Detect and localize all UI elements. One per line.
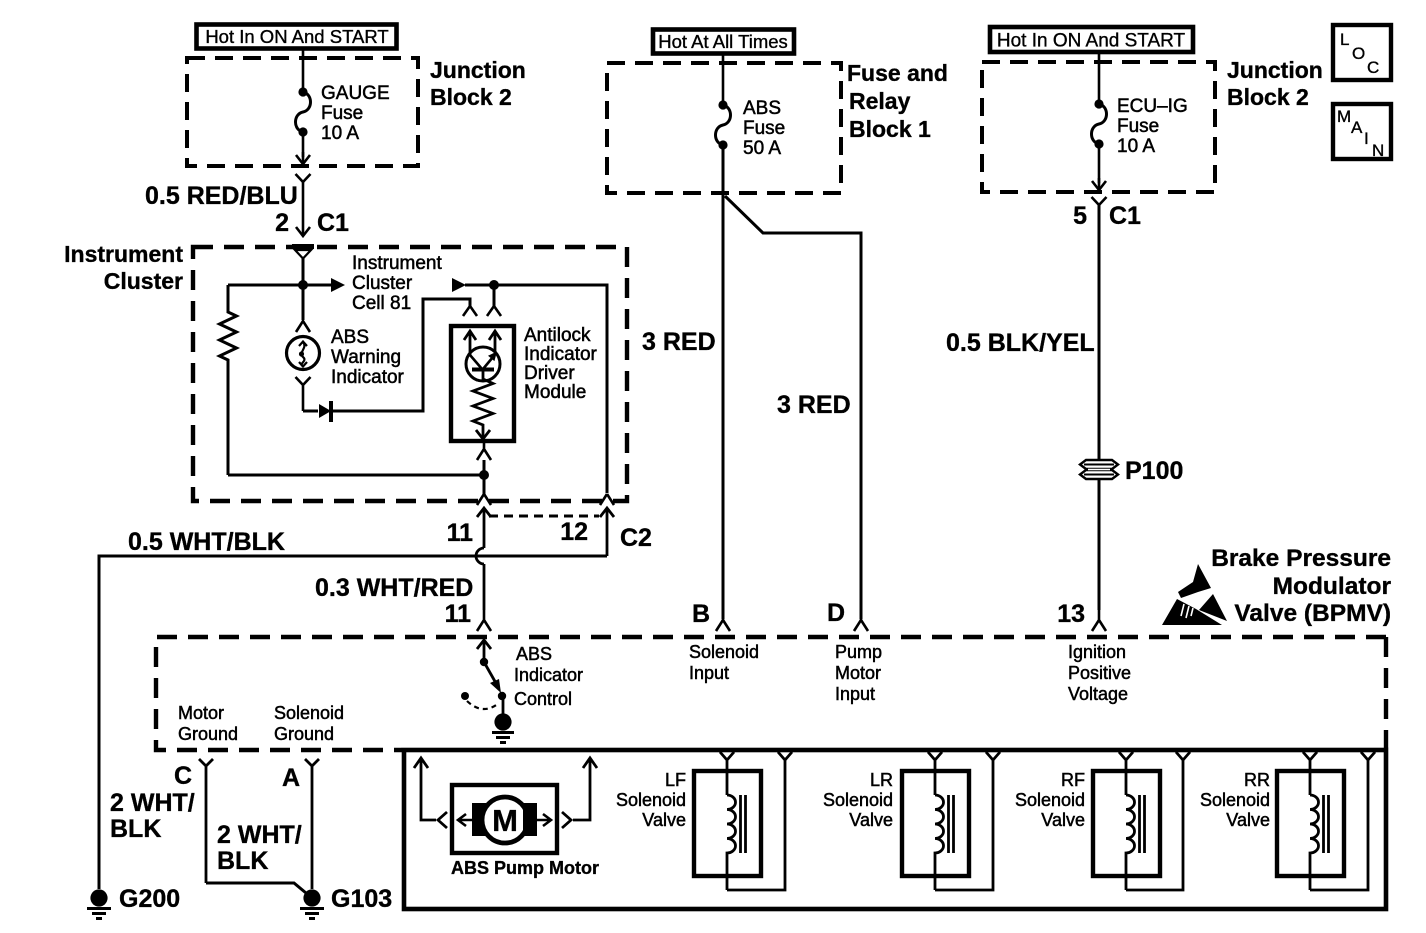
label ABS Indicator Control bbox=[514, 644, 583, 709]
wire down to P100 bbox=[1098, 205, 1101, 459]
pump motor left inline connector bbox=[438, 812, 447, 828]
BPMV pin name Ignition Positive Voltage bbox=[1068, 642, 1131, 704]
wire: hot box to fuse bbox=[302, 49, 305, 90]
arrow into cluster bbox=[296, 227, 310, 236]
pump motor left lead arrow bbox=[414, 758, 436, 820]
wire: hot box to fuse bbox=[722, 54, 725, 103]
svg-text:Driver: Driver bbox=[524, 363, 575, 384]
wire: node B right and down to pin 12 bbox=[494, 285, 607, 493]
location grid box LOC bbox=[1333, 25, 1391, 80]
svg-text:N: N bbox=[1372, 141, 1384, 160]
svg-text:11: 11 bbox=[447, 519, 474, 547]
power label box "Hot In ON And START" (right) bbox=[990, 27, 1193, 52]
svg-text:Valve: Valve bbox=[1226, 810, 1270, 830]
svg-text:Motor: Motor bbox=[178, 703, 224, 723]
svg-text:Ignition: Ignition bbox=[1068, 642, 1126, 662]
RR valve return wire bbox=[1310, 760, 1368, 890]
connector Y below lamp bbox=[296, 377, 311, 411]
wire segment down to instrument cluster bbox=[302, 182, 305, 235]
svg-text:5: 5 bbox=[1073, 202, 1087, 230]
svg-text:RR: RR bbox=[1244, 770, 1270, 790]
label Motor Ground bbox=[178, 703, 238, 744]
svg-text:Indicator: Indicator bbox=[514, 665, 583, 685]
svg-text:O: O bbox=[1352, 44, 1365, 63]
RR valve box bbox=[1277, 771, 1344, 876]
arrow from cell 81 bbox=[452, 278, 494, 292]
module lower pin legs bbox=[477, 443, 491, 460]
wire down to pin 13 bbox=[1098, 479, 1101, 610]
svg-text:ABS: ABS bbox=[331, 327, 369, 348]
svg-text:ECU–IG: ECU–IG bbox=[1117, 96, 1188, 117]
wire: entry down to node A bbox=[302, 257, 305, 285]
wire: node B down to module right pin bbox=[493, 285, 496, 306]
wire 0.3 WHT/RED hop over bbox=[476, 548, 484, 564]
svg-text:Solenoid: Solenoid bbox=[274, 703, 344, 723]
fuse value label bbox=[1117, 96, 1188, 157]
ABS indicator control switch arrow in bbox=[477, 640, 491, 662]
svg-text:Cell 81: Cell 81 bbox=[352, 293, 411, 314]
BPMV dashed right edge bbox=[1384, 637, 1388, 748]
svg-text:Hot In ON And START: Hot In ON And START bbox=[997, 31, 1186, 52]
connector chevron below block bbox=[296, 174, 311, 182]
svg-text:Warning: Warning bbox=[331, 347, 401, 368]
svg-text:Block 2: Block 2 bbox=[430, 84, 512, 110]
RF valve return connector Y bbox=[1176, 752, 1190, 760]
label Instrument Cluster bbox=[64, 241, 183, 294]
pin D connector legs bbox=[854, 610, 868, 631]
svg-text:Positive: Positive bbox=[1068, 663, 1131, 683]
motor right terminal arrow bbox=[537, 814, 551, 826]
svg-text:Valve: Valve bbox=[1041, 810, 1085, 830]
wire: hot box to fuse bbox=[1098, 53, 1101, 102]
svg-text:C: C bbox=[174, 762, 192, 790]
pin 11 arrow below cluster bbox=[477, 508, 491, 548]
pin 12 arrow below cluster bbox=[600, 508, 614, 556]
wire: module down to node C bbox=[483, 460, 486, 494]
svg-text:C1: C1 bbox=[317, 209, 349, 237]
svg-text:Input: Input bbox=[835, 684, 875, 704]
svg-text:11: 11 bbox=[445, 600, 472, 628]
svg-text:2 WHT/: 2 WHT/ bbox=[217, 821, 302, 849]
junction block 2 (left) dashed box bbox=[187, 58, 418, 166]
connector C2 dashed line bbox=[489, 515, 599, 518]
RF valve feed connector Y bbox=[1119, 752, 1133, 795]
svg-text:BLK: BLK bbox=[110, 815, 161, 843]
svg-text:Relay: Relay bbox=[849, 88, 911, 114]
module input arrows bbox=[464, 331, 501, 355]
svg-text:Junction: Junction bbox=[430, 57, 526, 83]
svg-text:Input: Input bbox=[689, 663, 729, 683]
LR valve box bbox=[902, 771, 969, 876]
SEC3 : right feed (ECU-IG) bbox=[946, 25, 1391, 631]
svg-text:ABS Pump Motor: ABS Pump Motor bbox=[451, 858, 599, 878]
wire: resistor bottom to node C bbox=[228, 474, 484, 477]
BPMV pin name Pump Motor Input bbox=[835, 642, 882, 704]
svg-text:LF: LF bbox=[665, 770, 686, 790]
fuse ABS 50A bbox=[716, 100, 731, 149]
label 2 WHT/BLK (motor ground wire) bbox=[110, 789, 195, 843]
grommet P100 bbox=[1080, 460, 1118, 479]
wire: diode right and up to module left pin bbox=[331, 299, 470, 411]
svg-text:M: M bbox=[492, 803, 518, 838]
wire: fuse down to block edge with arrow bbox=[1092, 148, 1106, 190]
svg-text:Valve: Valve bbox=[849, 810, 893, 830]
LF valve return wire bbox=[727, 760, 785, 890]
label Junction Block 2 (right) bbox=[1227, 57, 1323, 110]
svg-text:M: M bbox=[1337, 107, 1351, 126]
switch lower contact dot bbox=[498, 692, 506, 700]
wire: pin C to G103 bbox=[206, 883, 306, 893]
wire: node A left to resistor bbox=[228, 284, 303, 287]
diode CR1 bbox=[319, 401, 331, 422]
svg-text:2 WHT/: 2 WHT/ bbox=[110, 789, 195, 817]
svg-text:C: C bbox=[1367, 58, 1379, 77]
svg-text:Cluster: Cluster bbox=[104, 268, 183, 294]
svg-text:50 A: 50 A bbox=[743, 138, 781, 159]
connector legs above lamp bbox=[296, 321, 310, 332]
svg-text:10 A: 10 A bbox=[321, 123, 359, 144]
pump motor right lead arrow bbox=[573, 758, 597, 820]
SEC2 : middle feed (Fuse and Relay Block 1) bbox=[607, 30, 948, 632]
label Antilock Indicator Driver Module bbox=[524, 325, 598, 403]
module left pin legs bbox=[463, 306, 477, 316]
svg-text:Fuse: Fuse bbox=[743, 118, 785, 139]
SEC5 : C2 connector and wires to BPMV / grounds bbox=[87, 508, 1391, 919]
label Instrument Cluster Cell 81 bbox=[352, 253, 442, 314]
LR valve coil bbox=[935, 795, 944, 890]
RF valve return wire bbox=[1126, 760, 1183, 890]
wire: branch to pump motor feed bbox=[725, 196, 861, 619]
svg-text:A: A bbox=[282, 764, 300, 792]
ground G103 bbox=[300, 889, 324, 918]
wire: 0.3 WHT/RED down to BPMV pin 11 bbox=[483, 564, 486, 610]
svg-text:3 RED: 3 RED bbox=[777, 391, 851, 419]
LR valve feed connector Y bbox=[928, 752, 942, 795]
LR valve return wire bbox=[935, 760, 993, 890]
svg-text:0.5 RED/BLU: 0.5 RED/BLU bbox=[145, 182, 298, 210]
svg-text:ABS: ABS bbox=[516, 644, 552, 664]
svg-text:Indicator: Indicator bbox=[331, 367, 405, 388]
svg-text:G200: G200 bbox=[119, 885, 180, 913]
label Junction Block 2 (left) bbox=[430, 57, 526, 110]
cluster entry connector bar and triangle bbox=[292, 247, 314, 259]
RF valve core bbox=[1140, 795, 1145, 853]
svg-text:G103: G103 bbox=[331, 885, 392, 913]
svg-text:Fuse: Fuse bbox=[321, 103, 363, 124]
fuse GAUGE 10A bbox=[296, 87, 311, 136]
resistor (cluster shunt) bbox=[220, 285, 237, 475]
svg-text:A: A bbox=[1351, 118, 1363, 137]
svg-text:B: B bbox=[692, 600, 710, 628]
motor armature M bbox=[482, 797, 528, 843]
LF valve feed connector Y bbox=[720, 752, 734, 795]
BPMV dashed enclosure bbox=[156, 637, 1386, 750]
svg-text:Brake Pressure: Brake Pressure bbox=[1211, 545, 1391, 572]
LF valve core bbox=[741, 795, 746, 853]
LR solenoid valve label bbox=[823, 770, 893, 830]
svg-text:Solenoid: Solenoid bbox=[689, 642, 759, 662]
svg-text:Block 2: Block 2 bbox=[1227, 84, 1309, 110]
switch travel dashed arc bbox=[467, 701, 499, 709]
svg-text:D: D bbox=[827, 599, 845, 627]
svg-text:Junction: Junction bbox=[1227, 57, 1323, 83]
BPMV pin 11 legs bbox=[477, 610, 491, 631]
power label box "Hot At All Times" bbox=[653, 30, 794, 54]
svg-text:Module: Module bbox=[524, 382, 586, 403]
SEC6 : pump motor and solenoid valves assembly bbox=[404, 750, 1386, 909]
svg-text:Valve: Valve bbox=[642, 810, 686, 830]
svg-text:ABS: ABS bbox=[743, 98, 781, 119]
pin 13 connector legs bbox=[1092, 610, 1106, 631]
svg-text:Hot In ON And START: Hot In ON And START bbox=[205, 26, 388, 47]
wire: lamp to diode bbox=[303, 410, 318, 413]
svg-text:2: 2 bbox=[275, 209, 289, 237]
svg-text:L: L bbox=[1340, 30, 1349, 49]
svg-text:13: 13 bbox=[1057, 600, 1085, 628]
pin 11 exit legs at cluster border bbox=[477, 494, 491, 505]
svg-text:Modulator: Modulator bbox=[1273, 573, 1392, 600]
wire: fuse down to block edge with arrow bbox=[296, 136, 310, 164]
label Fuse and Relay Block 1 bbox=[847, 60, 948, 142]
svg-text:0.3 WHT/RED: 0.3 WHT/RED bbox=[315, 574, 473, 602]
RF solenoid valve label bbox=[1015, 770, 1085, 830]
svg-text:RF: RF bbox=[1061, 770, 1085, 790]
svg-text:Indicator: Indicator bbox=[524, 344, 598, 365]
ABS pump motor box bbox=[452, 785, 557, 853]
wire: fuse down through block to pin B bbox=[722, 145, 725, 619]
pin C connector Y bbox=[199, 759, 213, 883]
switch travel end dot bbox=[461, 692, 469, 700]
svg-text:Solenoid: Solenoid bbox=[1200, 790, 1270, 810]
svg-text:Valve (BPMV): Valve (BPMV) bbox=[1234, 600, 1391, 627]
svg-text:Solenoid: Solenoid bbox=[616, 790, 686, 810]
svg-text:Voltage: Voltage bbox=[1068, 684, 1128, 704]
motor left terminal arrow bbox=[458, 814, 472, 826]
pump motor right inline connector bbox=[562, 812, 571, 828]
svg-text:10 A: 10 A bbox=[1117, 136, 1155, 157]
switch blade with arrowhead bbox=[484, 662, 501, 693]
BPMV inner solid box bbox=[404, 750, 1386, 909]
svg-text:3 RED: 3 RED bbox=[642, 328, 716, 356]
switch pivot dot bbox=[480, 658, 488, 666]
svg-text:Motor: Motor bbox=[835, 663, 881, 683]
svg-text:GAUGE: GAUGE bbox=[321, 83, 390, 104]
wire: node A down to lamp bbox=[302, 285, 305, 320]
RF valve coil bbox=[1126, 795, 1135, 890]
RR valve return connector Y bbox=[1361, 752, 1375, 760]
node A junction dot bbox=[298, 280, 308, 290]
SEC4 : instrument cluster bbox=[64, 241, 627, 505]
pin A connector Y bbox=[305, 759, 319, 889]
BPMV pin name Solenoid Input bbox=[689, 642, 759, 683]
switch internal ground bbox=[492, 696, 514, 743]
RR valve coil bbox=[1310, 795, 1319, 890]
fuse value label bbox=[321, 83, 390, 144]
module right pin legs bbox=[487, 306, 501, 316]
node B junction dot bbox=[489, 280, 499, 290]
RR valve feed connector Y bbox=[1303, 752, 1317, 795]
svg-text:I: I bbox=[1364, 129, 1369, 148]
driver resistor bbox=[473, 371, 493, 437]
fuse value label bbox=[743, 98, 785, 159]
svg-text:Instrument: Instrument bbox=[64, 241, 183, 267]
svg-text:Ground: Ground bbox=[274, 724, 334, 744]
LF valve box bbox=[694, 771, 761, 876]
label ABS Warning Indicator bbox=[331, 327, 405, 388]
svg-text:Fuse: Fuse bbox=[1117, 116, 1159, 137]
LR valve core bbox=[949, 795, 954, 853]
svg-text:0.5 BLK/YEL: 0.5 BLK/YEL bbox=[946, 329, 1095, 357]
connector chevron below block bbox=[1092, 197, 1107, 205]
LF valve coil bbox=[727, 795, 736, 890]
svg-text:Cluster: Cluster bbox=[352, 273, 413, 294]
antilock indicator driver module box bbox=[451, 326, 514, 441]
location grid box MAIN bbox=[1333, 104, 1391, 160]
svg-text:Fuse and: Fuse and bbox=[847, 60, 948, 86]
svg-text:Pump: Pump bbox=[835, 642, 882, 662]
svg-text:Solenoid: Solenoid bbox=[1015, 790, 1085, 810]
label Solenoid Ground bbox=[274, 703, 344, 744]
svg-text:LR: LR bbox=[870, 770, 893, 790]
label 2 WHT/BLK (solenoid ground wire) bbox=[217, 821, 302, 875]
svg-text:Instrument: Instrument bbox=[352, 253, 442, 274]
RR solenoid valve label bbox=[1200, 770, 1270, 830]
motor left brush bbox=[472, 803, 486, 836]
driver transistor bbox=[466, 347, 500, 381]
svg-text:Antilock: Antilock bbox=[524, 325, 591, 346]
node C junction dot bbox=[479, 470, 489, 480]
svg-text:Hot At All Times: Hot At All Times bbox=[658, 31, 788, 52]
pin 12 exit legs at cluster border bbox=[600, 494, 614, 505]
fuse ECU-IG 10A bbox=[1092, 99, 1107, 148]
svg-text:Control: Control bbox=[514, 689, 572, 709]
instrument cluster dashed box bbox=[193, 247, 627, 501]
svg-text:BLK: BLK bbox=[217, 847, 268, 875]
svg-text:Block 1: Block 1 bbox=[849, 116, 931, 142]
pin B connector legs bbox=[716, 610, 730, 631]
SEC1 : top-left feed bbox=[145, 25, 526, 259]
LR valve return connector Y bbox=[986, 752, 1000, 760]
ground G200 bbox=[87, 889, 111, 918]
label Brake Pressure Modulator Valve (BPMV) bbox=[1211, 545, 1391, 627]
motor right brush bbox=[523, 803, 537, 836]
arrow to cell 81 bbox=[303, 278, 345, 292]
module output arrow bbox=[476, 430, 490, 439]
ABS warning indicator lamp bbox=[287, 337, 320, 370]
fuse and relay block 1 dashed box bbox=[607, 63, 841, 193]
junction block 2 (right) dashed box bbox=[982, 62, 1215, 192]
LF valve return connector Y bbox=[778, 752, 792, 760]
svg-text:12: 12 bbox=[560, 518, 588, 546]
svg-text:Ground: Ground bbox=[178, 724, 238, 744]
power label box "Hot In ON And START" (left) bbox=[197, 25, 397, 49]
svg-text:Solenoid: Solenoid bbox=[823, 790, 893, 810]
ESD sensitive symbol bbox=[1162, 564, 1227, 625]
RR valve core bbox=[1324, 795, 1329, 853]
svg-text:P100: P100 bbox=[1125, 457, 1183, 485]
svg-text:0.5 WHT/BLK: 0.5 WHT/BLK bbox=[128, 528, 285, 556]
svg-text:C1: C1 bbox=[1109, 202, 1141, 230]
svg-text:C2: C2 bbox=[620, 524, 652, 552]
LF solenoid valve label bbox=[616, 770, 686, 830]
wire 0.5 WHT/BLK: pin12 down, left to G200 drop bbox=[99, 556, 607, 889]
RF valve box bbox=[1093, 771, 1160, 876]
